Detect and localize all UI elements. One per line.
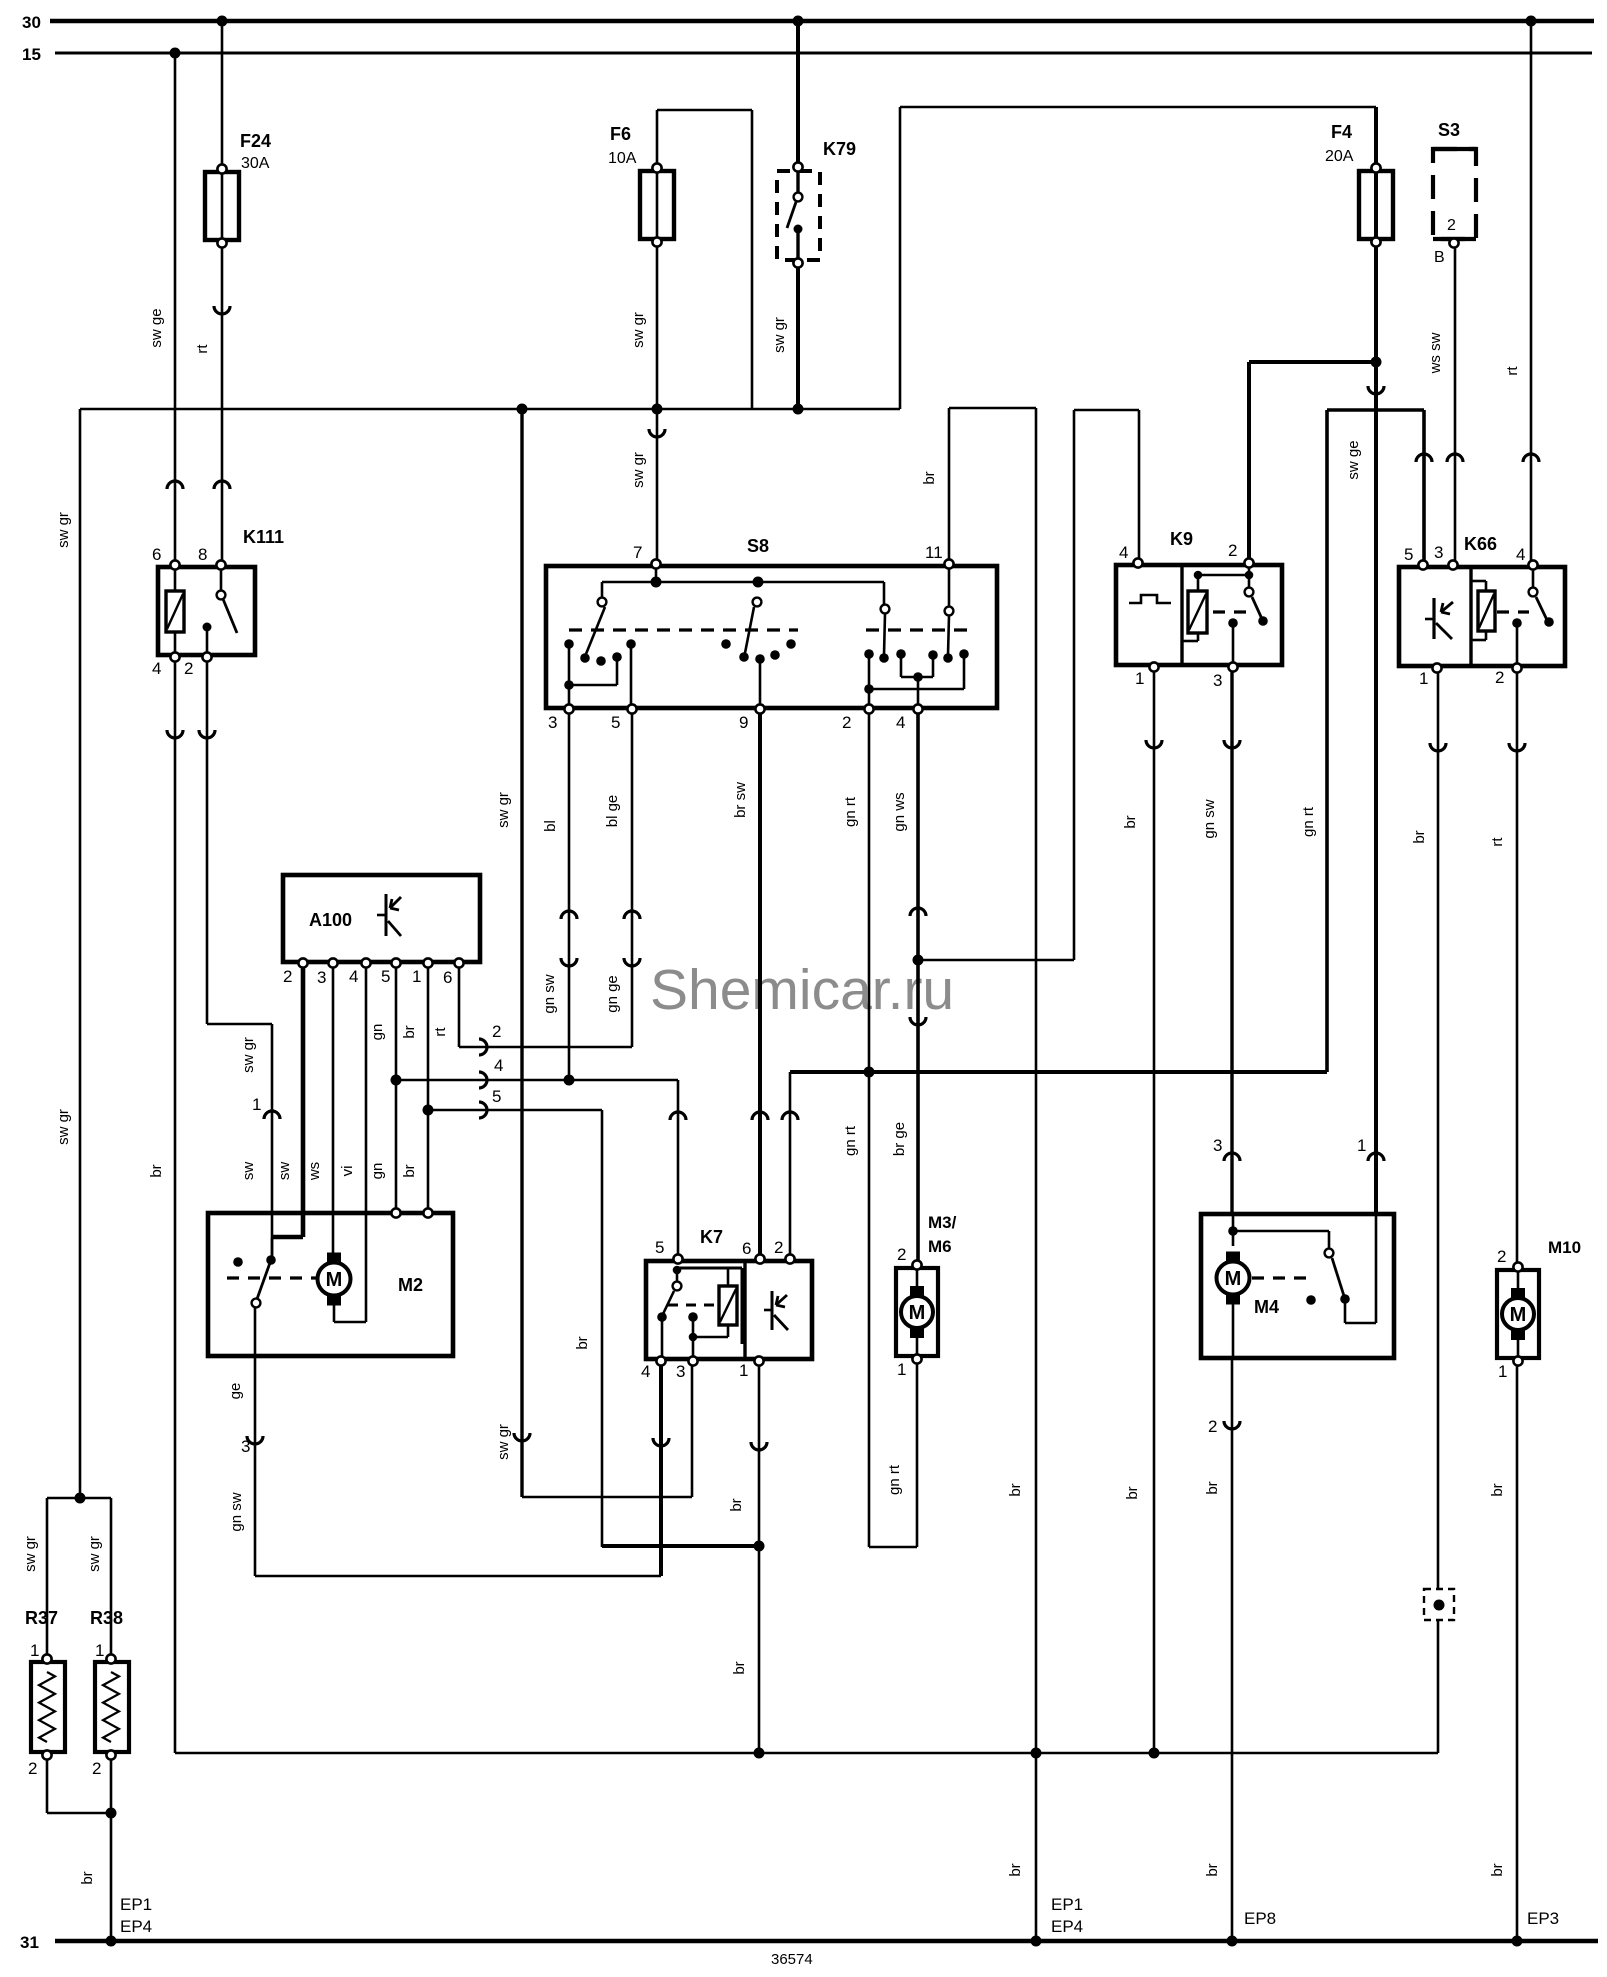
svg-text:EP3: EP3	[1527, 1909, 1559, 1928]
svg-text:br: br	[1122, 815, 1139, 828]
svg-text:EP4: EP4	[120, 1917, 152, 1936]
svg-text:K79: K79	[823, 139, 856, 159]
svg-text:2: 2	[492, 1022, 501, 1041]
svg-text:gn rt: gn rt	[842, 1125, 859, 1156]
svg-text:br: br	[401, 1164, 418, 1177]
svg-text:M3/: M3/	[928, 1213, 957, 1232]
svg-text:ws: ws	[306, 1162, 323, 1181]
svg-text:3: 3	[1213, 671, 1222, 690]
svg-text:br: br	[1204, 1863, 1221, 1876]
svg-text:1: 1	[252, 1095, 261, 1114]
svg-text:3: 3	[241, 1437, 250, 1456]
svg-text:30: 30	[22, 13, 41, 32]
svg-text:M: M	[1225, 1268, 1242, 1290]
svg-text:1: 1	[739, 1361, 748, 1380]
svg-text:F24: F24	[240, 131, 271, 151]
svg-text:br: br	[921, 471, 938, 484]
svg-text:sw gr: sw gr	[630, 312, 647, 348]
svg-text:M: M	[326, 1269, 343, 1291]
svg-text:1: 1	[95, 1641, 104, 1660]
svg-text:2: 2	[283, 967, 292, 986]
svg-text:gn: gn	[369, 1163, 386, 1180]
svg-text:sw gr: sw gr	[495, 1424, 512, 1460]
svg-text:3: 3	[1213, 1136, 1222, 1155]
svg-text:sw: sw	[276, 1162, 293, 1181]
svg-text:1: 1	[897, 1360, 906, 1379]
svg-text:sw gr: sw gr	[240, 1037, 257, 1073]
svg-text:M: M	[909, 1302, 926, 1324]
svg-text:5: 5	[655, 1238, 664, 1257]
svg-text:br: br	[401, 1025, 418, 1038]
svg-text:EP1: EP1	[1051, 1895, 1083, 1914]
svg-text:Shemicar.ru: Shemicar.ru	[650, 958, 954, 1022]
svg-text:M4: M4	[1254, 1297, 1279, 1317]
svg-text:br: br	[1124, 1486, 1141, 1499]
svg-text:2: 2	[1208, 1417, 1217, 1436]
svg-text:br: br	[1411, 830, 1428, 843]
svg-text:M10: M10	[1548, 1238, 1581, 1257]
svg-text:K111: K111	[243, 527, 284, 547]
svg-text:1: 1	[1357, 1136, 1366, 1155]
svg-text:sw gr: sw gr	[22, 1536, 39, 1572]
svg-text:gn rt: gn rt	[842, 796, 859, 827]
svg-text:R38: R38	[90, 1608, 123, 1628]
svg-text:31: 31	[20, 1933, 39, 1952]
svg-text:sw ge: sw ge	[1345, 440, 1362, 479]
svg-text:2: 2	[774, 1238, 783, 1257]
svg-text:rt: rt	[432, 1027, 449, 1037]
svg-text:2: 2	[184, 659, 193, 678]
svg-text:2: 2	[1228, 541, 1237, 560]
svg-text:10A: 10A	[608, 150, 637, 167]
svg-text:2: 2	[92, 1759, 101, 1778]
svg-text:4: 4	[1119, 543, 1128, 562]
svg-text:rt: rt	[194, 344, 211, 354]
svg-text:2: 2	[1497, 1247, 1506, 1266]
svg-text:sw gr: sw gr	[55, 1109, 72, 1145]
svg-text:2: 2	[1447, 217, 1456, 234]
svg-text:S3: S3	[1438, 120, 1460, 140]
svg-text:br: br	[574, 1336, 591, 1349]
svg-text:3: 3	[676, 1362, 685, 1381]
svg-text:EP8: EP8	[1244, 1909, 1276, 1928]
svg-text:gn rt: gn rt	[1300, 806, 1317, 837]
svg-text:7: 7	[633, 543, 642, 562]
svg-text:4: 4	[896, 713, 905, 732]
svg-text:20A: 20A	[1325, 148, 1354, 165]
svg-text:K66: K66	[1464, 534, 1497, 554]
svg-text:sw gr: sw gr	[55, 512, 72, 548]
svg-text:br sw: br sw	[732, 782, 749, 818]
svg-text:4: 4	[494, 1056, 503, 1075]
svg-text:gn rt: gn rt	[886, 1464, 903, 1495]
svg-text:bl ge: bl ge	[604, 795, 621, 828]
svg-text:M: M	[1510, 1304, 1527, 1326]
svg-text:gn sw: gn sw	[541, 974, 558, 1013]
svg-text:3: 3	[548, 713, 557, 732]
svg-text:br ge: br ge	[891, 1122, 908, 1156]
svg-text:sw ge: sw ge	[148, 308, 165, 347]
svg-text:2: 2	[897, 1245, 906, 1264]
svg-text:9: 9	[739, 713, 748, 732]
svg-text:br: br	[79, 1871, 96, 1884]
svg-text:6: 6	[742, 1239, 751, 1258]
svg-text:br: br	[1007, 1483, 1024, 1496]
svg-text:gn ws: gn ws	[891, 792, 908, 831]
svg-text:B: B	[1434, 249, 1445, 266]
svg-text:br: br	[1489, 1863, 1506, 1876]
svg-text:sw gr: sw gr	[495, 792, 512, 828]
svg-text:2: 2	[842, 713, 851, 732]
svg-text:15: 15	[22, 45, 41, 64]
svg-text:A100: A100	[309, 910, 352, 930]
svg-text:R37: R37	[25, 1608, 58, 1628]
svg-text:M2: M2	[398, 1275, 423, 1295]
svg-text:8: 8	[198, 545, 207, 564]
svg-text:5: 5	[611, 713, 620, 732]
svg-text:br: br	[1204, 1481, 1221, 1494]
svg-text:br: br	[1007, 1863, 1024, 1876]
svg-text:1: 1	[1135, 669, 1144, 688]
svg-text:5: 5	[1404, 545, 1413, 564]
svg-text:4: 4	[349, 967, 358, 986]
svg-text:ws sw: ws sw	[1427, 332, 1444, 374]
svg-text:bl: bl	[542, 820, 559, 832]
svg-text:br: br	[1489, 1483, 1506, 1496]
svg-text:4: 4	[641, 1362, 650, 1381]
svg-text:5: 5	[492, 1087, 501, 1106]
svg-text:S8: S8	[747, 536, 769, 556]
svg-text:2: 2	[1495, 668, 1504, 687]
svg-text:ge: ge	[227, 1383, 244, 1400]
svg-text:K9: K9	[1170, 529, 1193, 549]
svg-text:3: 3	[1434, 543, 1443, 562]
svg-text:K7: K7	[700, 1227, 723, 1247]
svg-text:EP1: EP1	[120, 1895, 152, 1914]
svg-text:11: 11	[925, 543, 943, 562]
svg-text:1: 1	[1419, 669, 1428, 688]
svg-text:6: 6	[152, 545, 161, 564]
svg-text:4: 4	[152, 659, 161, 678]
svg-text:gn sw: gn sw	[228, 1492, 245, 1531]
svg-text:2: 2	[28, 1759, 37, 1778]
svg-text:36574: 36574	[771, 1951, 813, 1968]
svg-text:gn sw: gn sw	[1201, 799, 1218, 838]
svg-text:3: 3	[317, 968, 326, 987]
svg-text:6: 6	[443, 968, 452, 987]
svg-text:1: 1	[30, 1641, 39, 1660]
svg-text:5: 5	[381, 967, 390, 986]
svg-text:br: br	[148, 1164, 165, 1177]
svg-text:br: br	[728, 1498, 745, 1511]
svg-text:gn: gn	[369, 1024, 386, 1041]
svg-text:M6: M6	[928, 1237, 952, 1256]
svg-text:1: 1	[1498, 1362, 1507, 1381]
svg-text:sw gr: sw gr	[86, 1536, 103, 1572]
svg-text:30A: 30A	[241, 155, 270, 172]
svg-text:vi: vi	[339, 1166, 356, 1177]
svg-text:rt: rt	[1504, 366, 1521, 376]
svg-text:EP4: EP4	[1051, 1917, 1083, 1936]
svg-text:gn ge: gn ge	[604, 975, 621, 1013]
svg-text:1: 1	[412, 967, 421, 986]
svg-text:sw gr: sw gr	[771, 317, 788, 353]
svg-text:4: 4	[1516, 545, 1525, 564]
svg-text:F4: F4	[1331, 122, 1352, 142]
svg-text:rt: rt	[1489, 837, 1506, 847]
svg-text:sw gr: sw gr	[630, 452, 647, 488]
svg-text:br: br	[731, 1661, 748, 1674]
svg-text:F6: F6	[610, 124, 631, 144]
svg-text:sw: sw	[240, 1162, 257, 1181]
